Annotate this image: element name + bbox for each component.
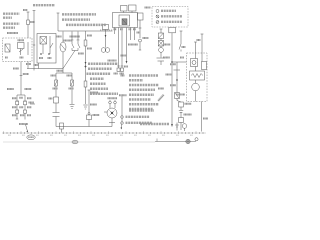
long wire CB battery feed (169, 27, 176, 127)
label relay K2 pins (39, 57, 43, 59)
label oval mid text (73, 141, 78, 143)
bottom annotation above motor (129, 109, 154, 112)
wire drop D177 with lamp box (174, 62, 182, 102)
label C7 and 1.5 near box (182, 46, 186, 48)
label wire 0.5 red-black (128, 44, 138, 46)
oval tag mid (72, 140, 78, 144)
bottom annotation battery positive (140, 123, 169, 125)
ignition relay cluster RC (113, 5, 138, 28)
ground bus faint (3, 141, 155, 143)
blower module internals (190, 42, 207, 102)
legend symbols (156, 10, 159, 24)
relay K2 solid box (37, 34, 56, 64)
label right of cluster (145, 7, 151, 9)
ground point circle (186, 139, 190, 143)
label connector rows left cluster (12, 97, 17, 99)
label G102 oval text (28, 136, 34, 138)
label wire 0.5 red right (164, 44, 171, 46)
blower module dashed box SBR (187, 53, 208, 102)
right legend list (129, 74, 158, 77)
label connector C15 pair (53, 88, 58, 90)
label pair mid-left (7, 88, 14, 90)
ground bus dark segment (155, 139, 196, 142)
battery symbol bottom (175, 123, 179, 131)
label 65 and 1.5 brown right of legend (121, 75, 125, 77)
connector pair above motor (109, 100, 117, 108)
label pins C240 (114, 28, 117, 30)
legend dashed box (152, 7, 188, 28)
label terminals K1 (5, 57, 8, 59)
relay K1 dashed box (3, 38, 33, 62)
label connector C206 (90, 92, 98, 94)
label C-D above connector pair (108, 97, 118, 99)
label wire 1.0 red-black (70, 36, 81, 38)
label note top-left A (3, 12, 20, 14)
header annotation line 3 (66, 24, 106, 27)
switch S1 pair (63, 32, 80, 69)
connector above ruler C61 (60, 123, 64, 133)
relay K1 internals (5, 42, 28, 55)
wire ground arrow bottom left (25, 124, 28, 132)
terminal circle bottom right (195, 138, 198, 141)
label wire 0.5 black (121, 55, 127, 57)
middle legend list (88, 63, 118, 66)
wire ground bus B2 (56, 126, 112, 128)
wire main feed below relay (16, 62, 35, 120)
ruler baseline (2, 132, 206, 134)
bottom legend entry 2 (121, 122, 124, 125)
header annotation line 2 (62, 18, 90, 21)
label wire 1.5 brown mid (90, 104, 97, 106)
label wire 0.5 brown-white (108, 60, 117, 62)
label C6 right (203, 118, 208, 120)
label connector 12 (49, 98, 53, 100)
wire drop D72 fuse+ground (70, 73, 75, 109)
legend box entries (161, 10, 176, 12)
wire drop D56 fuse+connector+ground (53, 73, 60, 127)
bottom legend entry 1 (121, 116, 124, 119)
wire drop D89 connector (87, 90, 92, 127)
motor M1 (104, 108, 117, 127)
wire bus B1 (27, 62, 72, 74)
wire drop to arrow right of motor (120, 96, 122, 129)
label wire 1.5 brown right (166, 74, 172, 76)
fuse right of cluster (138, 13, 144, 50)
switch chain CC (179, 31, 182, 52)
label note top-left B (3, 23, 20, 25)
label connector codes under cluster (114, 73, 119, 75)
label top header GM (33, 4, 55, 6)
wire feed V3 and bus B3 (57, 13, 113, 31)
label G105 (93, 114, 100, 116)
label above relay K1 (7, 32, 18, 34)
wire far right CD (201, 34, 204, 132)
label wire 1.5 black (78, 53, 84, 55)
alternator circle bottom (182, 124, 187, 131)
label inside K1 (18, 39, 25, 41)
connector chain C102 (179, 102, 184, 130)
wire dashed link left of cluster (100, 29, 113, 31)
label G102 right (185, 103, 192, 105)
wire link to blower box (171, 61, 186, 62)
label wire 1.0 black right (184, 114, 192, 116)
label connector C100 (23, 73, 29, 75)
wire battery feed vertical V2 (33, 11, 36, 71)
horn pair symbol TC (101, 25, 110, 53)
wire pins below cluster (115, 28, 135, 72)
label component right (176, 94, 185, 96)
header annotation line 1 (62, 13, 96, 16)
label wire 0.5 (51, 75, 56, 77)
label wire 0.5 red (57, 36, 62, 38)
label fuse value F1 (23, 9, 28, 11)
ruler ticks (4, 131, 204, 134)
component chain CA right (157, 29, 166, 65)
label 30 under arrow (124, 66, 128, 68)
wire drop D5 with fuses (83, 31, 87, 109)
label 1.5 brown pair on D177 (170, 63, 176, 65)
label fuse mid (87, 35, 92, 37)
label wire 0.8 black right (163, 57, 170, 59)
ruler numbers hint (8, 134, 11, 136)
oval tag G102 (27, 135, 35, 140)
label wire bottom-left (19, 123, 28, 125)
wire fuse feed vertical V1 (27, 12, 30, 38)
horn H1 oval component (60, 32, 66, 69)
label 1.5 brown rotated near arrow wire (158, 95, 164, 101)
label wire 4.0 black (13, 68, 19, 70)
label mid right text (143, 37, 149, 39)
label wire 2.5 black (57, 70, 64, 72)
label fuse F6 (64, 40, 72, 42)
